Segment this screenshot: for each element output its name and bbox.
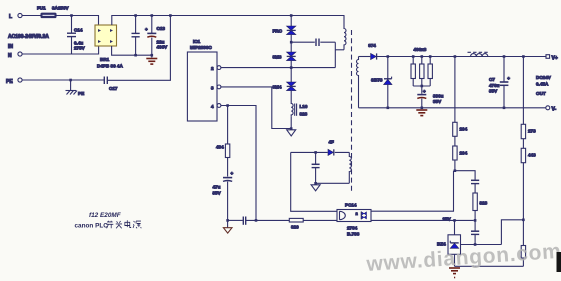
ground triangle feedback — [223, 220, 232, 233]
svg-text:828: 828 — [300, 112, 308, 117]
svg-text:35V: 35V — [433, 99, 442, 104]
svg-text:C17: C17 — [109, 86, 118, 91]
capacitor 47u — [223, 171, 234, 220]
ground earth feedback — [449, 268, 460, 278]
wire jog right chain — [501, 220, 523, 245]
svg-text:OUT: OUT — [536, 91, 546, 96]
svg-text:IC1: IC1 — [193, 39, 201, 44]
capacitor C7 — [500, 57, 510, 108]
svg-text:V-: V- — [552, 107, 557, 113]
svg-text:+: + — [423, 89, 426, 94]
ground triangle primary signal — [287, 130, 296, 136]
glyph kai — [106, 221, 113, 229]
glyph dian — [125, 220, 131, 227]
wire snubber top — [291, 41, 335, 43]
svg-text:400V: 400V — [157, 45, 169, 50]
wire opto collector — [371, 171, 454, 212]
svg-text:35V: 35V — [489, 89, 498, 94]
label C14 — [74, 28, 86, 51]
ground earth secondary — [416, 110, 427, 116]
svg-text:+: + — [231, 171, 234, 176]
terminal N — [8, 52, 22, 59]
svg-text:443: 443 — [528, 153, 536, 158]
capacitor series feedback — [243, 217, 245, 225]
wire node to 323 chain — [455, 171, 475, 180]
svg-text:484: 484 — [216, 145, 224, 150]
svg-text:204: 204 — [460, 127, 468, 132]
label C7 — [489, 77, 500, 94]
ground earth primary — [146, 59, 157, 65]
label IC1 — [190, 39, 212, 50]
svg-text:25V: 25V — [443, 217, 452, 222]
capacitor fb2 — [471, 231, 479, 244]
svg-text:AC100-240V/0.3A: AC100-240V/0.3A — [8, 34, 49, 40]
svg-text:FRC: FRC — [273, 29, 283, 34]
label L1 — [300, 104, 308, 117]
svg-text:275V: 275V — [74, 46, 86, 51]
zener SB73 — [384, 57, 392, 108]
wire opto emitter — [371, 219, 474, 221]
label C13 — [157, 26, 169, 50]
svg-text:PE: PE — [78, 91, 84, 96]
resistor 820 — [289, 218, 337, 222]
capacitor C13 electrolytic — [145, 16, 156, 58]
capacitor aux — [312, 152, 320, 183]
svg-text:400x3: 400x3 — [414, 47, 427, 52]
wire feedback rail mid — [246, 219, 289, 221]
wire N rail — [22, 46, 99, 54]
bridge rectifier BR1 — [95, 25, 117, 46]
optocoupler PC14 — [337, 210, 371, 222]
svg-text:IN: IN — [8, 44, 13, 50]
svg-text:canon PLC: canon PLC — [75, 222, 109, 229]
transformer aux winding — [349, 152, 351, 183]
svg-text:2: 2 — [211, 66, 214, 71]
svg-text:874: 874 — [368, 43, 376, 48]
svg-text:0.45A: 0.45A — [536, 82, 549, 87]
wire aux top — [291, 151, 350, 153]
transformer secondary — [357, 57, 359, 108]
svg-text:PE: PE — [6, 79, 13, 85]
transformer core — [351, 30, 353, 192]
terminal PE — [6, 78, 22, 85]
terminal V- — [546, 106, 557, 113]
wire PE line — [22, 79, 104, 81]
capacitor fb1 — [471, 180, 479, 193]
fuse FU1 — [41, 13, 56, 17]
resistor chain left 204 — [453, 57, 457, 171]
resistor chain right 273 — [521, 57, 525, 246]
resistor bottom right — [521, 246, 525, 267]
label FU1 — [37, 6, 70, 11]
svg-text:+: + — [145, 27, 148, 32]
label BR1 — [97, 57, 123, 69]
svg-text:MIP2330C: MIP2330C — [190, 45, 212, 50]
wire fuse to bridge AC1 — [56, 16, 99, 26]
wire zener top — [454, 220, 456, 234]
svg-text:C7: C7 — [489, 77, 495, 82]
diode D74 — [359, 53, 547, 59]
zener 25V box — [448, 235, 461, 266]
svg-text:470u: 470u — [489, 83, 500, 88]
svg-text:SB73: SB73 — [371, 78, 383, 83]
svg-text:BZ4: BZ4 — [437, 242, 446, 247]
wire V- rail — [359, 107, 546, 109]
ground chassis PE — [66, 80, 85, 96]
svg-text:D4PB 80 4A: D4PB 80 4A — [97, 64, 123, 69]
svg-text:BR1: BR1 — [100, 57, 110, 62]
resistor bank 400x3 — [411, 57, 432, 94]
resistor R484 — [225, 106, 229, 177]
label 330u — [433, 94, 444, 105]
corner mark — [557, 252, 561, 272]
diode D3 — [287, 82, 296, 101]
svg-text:+: + — [507, 76, 510, 81]
wire C17 to DC+ rail — [107, 16, 170, 81]
resistor 323 — [473, 193, 477, 231]
label 47u — [213, 185, 222, 196]
diode D4 — [328, 149, 334, 155]
svg-text:C13: C13 — [157, 26, 166, 31]
terminal V+ — [546, 55, 558, 62]
svg-text:L10: L10 — [300, 104, 308, 109]
wire pin2 to drain node — [221, 42, 335, 67]
wire pin3 — [221, 87, 291, 129]
svg-text:C14: C14 — [74, 28, 83, 33]
text DC24V output — [536, 75, 552, 96]
svg-text:4: 4 — [211, 104, 214, 109]
svg-text:V+: V+ — [552, 56, 558, 62]
TVS D1 — [287, 16, 296, 53]
wire bridge - to DC- rail — [112, 46, 152, 55]
capacitor C after bridge — [132, 16, 140, 56]
wire rail 244 — [461, 244, 502, 246]
svg-text:8M4: 8M4 — [273, 85, 282, 90]
svg-text:3: 3 — [211, 85, 214, 90]
IC U1 box — [187, 52, 221, 121]
svg-text:f12 E20MF: f12 E20MF — [89, 212, 122, 219]
svg-text:2784: 2784 — [347, 226, 358, 231]
svg-text:DC24V: DC24V — [536, 75, 552, 80]
wire opto LED anode — [291, 152, 337, 211]
wire L to fuse — [22, 15, 41, 17]
wire drain to primary — [335, 49, 344, 51]
inductor output — [468, 52, 490, 56]
transformer T1 primary — [344, 16, 346, 50]
svg-text:820: 820 — [291, 225, 299, 230]
ground triangle aux — [311, 185, 320, 191]
svg-text:3A250V: 3A250V — [52, 6, 70, 11]
svg-text:47u: 47u — [213, 185, 221, 190]
capacitor C17 Y-cap — [104, 77, 118, 92]
svg-text:204: 204 — [460, 151, 468, 156]
svg-text:35V: 35V — [213, 191, 222, 196]
capacitor 330u — [417, 89, 426, 108]
wire bridge + to DC+ rail — [112, 16, 345, 26]
svg-text:323: 323 — [480, 201, 488, 206]
svg-text:B.788: B.788 — [347, 232, 360, 237]
wire aux bottom — [316, 182, 350, 184]
svg-text:330u: 330u — [433, 94, 444, 99]
glyph yuan — [133, 221, 141, 228]
svg-text:4F: 4F — [329, 140, 335, 145]
svg-text:273: 273 — [528, 129, 536, 134]
svg-text:FU1: FU1 — [37, 6, 46, 11]
label PC14 — [345, 203, 360, 237]
capacitor snubber — [316, 39, 319, 47]
svg-text:L: L — [9, 14, 12, 20]
glyph guan — [116, 221, 122, 228]
wire rail 266 — [455, 265, 524, 267]
capacitor C14 — [67, 16, 76, 55]
svg-text:N: N — [8, 53, 12, 59]
terminal L — [9, 13, 22, 20]
svg-text:PC14: PC14 — [345, 203, 357, 208]
diode D2 — [287, 52, 296, 82]
wire feedback rail left — [228, 219, 243, 221]
text title line2 — [75, 220, 142, 229]
inductor L1 — [291, 101, 296, 130]
svg-text:8M3: 8M3 — [273, 55, 282, 60]
wire pin4 — [221, 106, 256, 221]
